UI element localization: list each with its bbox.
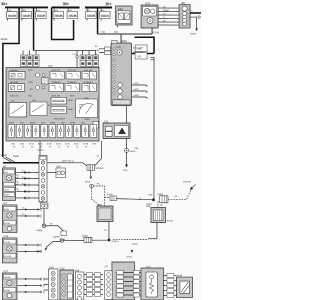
svg-text:3: 3 (188, 17, 189, 19)
svg-text:B7/4 NO: B7/4 NO (84, 70, 92, 72)
svg-text:24/9B: 24/9B (36, 251, 42, 253)
svg-text:1/35: 1/35 (137, 56, 142, 58)
svg-text:30/15 C4: 30/15 C4 (10, 95, 19, 97)
svg-text:15/1: 15/1 (104, 121, 109, 123)
svg-text:C/64 07/98: C/64 07/98 (133, 48, 144, 50)
svg-text:5/4G1: 5/4G1 (157, 194, 164, 196)
svg-text:C/1B: C/1B (59, 268, 65, 270)
svg-text:54/16-F: 54/16-F (95, 168, 104, 170)
svg-text:0.5: 0.5 (22, 183, 25, 185)
svg-text:2: 2 (188, 14, 189, 16)
svg-text:31/53: 31/53 (134, 89, 140, 91)
svg-text:15A: 15A (11, 99, 15, 102)
svg-text:15A: 15A (28, 94, 32, 97)
svg-text:11/G38: 11/G38 (68, 14, 77, 18)
svg-text:5/1: 5/1 (3, 165, 7, 168)
svg-text:87/8B 30: 87/8B 30 (68, 82, 77, 84)
svg-text:11/G30: 11/G30 (22, 14, 31, 18)
svg-text:11/G30: 11/G30 (37, 14, 46, 18)
svg-text:15A: 15A (32, 99, 36, 102)
svg-text:A/7B5: A/7B5 (4, 289, 11, 292)
svg-text:2/4G2: 2/4G2 (132, 244, 139, 246)
svg-text:NO/4 8/6: NO/4 8/6 (10, 82, 19, 84)
svg-text:8/1B: 8/1B (177, 275, 182, 277)
svg-text:G4/9B9: G4/9B9 (53, 236, 61, 238)
svg-text:23/G2B: 23/G2B (183, 182, 191, 184)
svg-text:87/8B 30: 87/8B 30 (84, 82, 93, 84)
svg-text:D/G: D/G (4, 172, 8, 174)
svg-text:G/G58: G/G58 (153, 32, 160, 34)
svg-text:30/G6: 30/G6 (190, 34, 197, 36)
svg-text:1/9G4: 1/9G4 (84, 119, 91, 121)
svg-text:NO/2B: NO/2B (4, 277, 11, 279)
svg-text:87/88: 87/88 (83, 143, 89, 145)
svg-text:B7/3 NO: B7/3 NO (68, 70, 76, 72)
svg-text:30+: 30+ (1, 2, 8, 6)
svg-text:G/4B H: G/4B H (111, 241, 119, 243)
svg-text:GNA4: GNA4 (163, 9, 170, 12)
svg-text:G/5B: G/5B (97, 205, 103, 207)
svg-text:0.5: 0.5 (22, 171, 25, 173)
svg-text:1G/7B: 1G/7B (4, 242, 11, 244)
svg-text:15A: 15A (81, 121, 85, 124)
svg-text:B7/2 NO: B7/2 NO (52, 70, 60, 72)
svg-text:54/B8: 54/B8 (36, 230, 43, 232)
svg-text:0.5: 0.5 (22, 214, 25, 216)
svg-text:NO/4 30/15: NO/4 30/15 (54, 118, 65, 120)
svg-text:15A: 15A (20, 121, 24, 124)
svg-text:0.75: 0.75 (70, 161, 74, 163)
svg-text:54/B4: 54/B4 (13, 156, 20, 158)
svg-text:5/17: 5/17 (3, 270, 8, 273)
svg-text:A/7B9: A/7B9 (4, 222, 11, 225)
svg-text:31/52: 31/52 (134, 83, 140, 85)
svg-text:D/YR: D/YR (4, 190, 9, 192)
svg-text:1: 1 (188, 9, 189, 11)
svg-text:A/4B: A/4B (4, 208, 9, 211)
svg-text:54/4G: 54/4G (129, 151, 135, 153)
svg-text:C/44 07/99: C/44 07/99 (133, 52, 144, 54)
svg-text:30/15: 30/15 (50, 122, 56, 124)
svg-text:5/7: 5/7 (3, 202, 7, 205)
svg-text:2/32: 2/32 (48, 66, 53, 68)
svg-text:12/G8: 12/G8 (0, 155, 7, 157)
svg-text:15+: 15+ (105, 2, 112, 6)
svg-text:B7/5 NO: B7/5 NO (52, 95, 60, 97)
svg-text:11/G38: 11/G38 (54, 14, 63, 18)
svg-text:15A: 15A (41, 121, 45, 124)
svg-text:4: 4 (188, 21, 189, 23)
svg-text:30/15: 30/15 (9, 122, 15, 124)
svg-text:NO/8: NO/8 (68, 100, 74, 102)
svg-text:D/HR: D/HR (4, 195, 9, 197)
svg-text:30+: 30+ (63, 2, 70, 6)
svg-text:4/5B 8/5: 4/5B 8/5 (10, 70, 19, 72)
svg-text:11/G30: 11/G30 (8, 14, 17, 18)
svg-text:21/2: 21/2 (146, 265, 151, 268)
svg-text:NO/8: NO/8 (68, 109, 74, 111)
svg-text:30/15: 30/15 (70, 122, 76, 124)
svg-text:NO74B: NO74B (4, 256, 11, 258)
svg-text:2.5K: 2.5K (114, 32, 119, 34)
svg-text:1/9G: 1/9G (84, 98, 89, 100)
svg-text:30/15: 30/15 (30, 122, 36, 124)
svg-text:15A: 15A (61, 121, 65, 124)
svg-text:G1A: G1A (123, 169, 128, 172)
svg-text:5/7B: 5/7B (3, 235, 8, 238)
svg-text:1.5R: 1.5R (101, 32, 106, 34)
svg-text:4/5: 4/5 (181, 1, 185, 5)
svg-text:0.5: 0.5 (96, 155, 99, 157)
svg-text:4/56: 4/56 (122, 39, 128, 43)
svg-text:11/G31: 11/G31 (101, 14, 110, 18)
svg-text:3/17: 3/17 (145, 1, 151, 5)
svg-text:87/8B 30: 87/8B 30 (52, 82, 61, 84)
svg-text:11/G30: 11/G30 (87, 14, 96, 18)
svg-text:G/YB: G/YB (85, 181, 91, 183)
svg-text:16/102: 16/102 (166, 221, 173, 223)
svg-text:5/Y11: 5/Y11 (37, 149, 44, 152)
svg-text:6/5B: 6/5B (146, 206, 151, 208)
svg-text:0.5: 0.5 (22, 177, 25, 179)
svg-text:2/29: 2/29 (118, 7, 124, 11)
svg-text:5: 5 (188, 24, 189, 26)
svg-text:0.5: 0.5 (22, 208, 25, 210)
svg-text:C/30: C/30 (116, 47, 121, 49)
svg-text:31/54: 31/54 (134, 95, 140, 97)
svg-text:54/G5: 54/G5 (0, 38, 7, 41)
svg-text:2/1G2: 2/1G2 (126, 257, 133, 259)
svg-text:5/713: 5/713 (29, 143, 35, 145)
